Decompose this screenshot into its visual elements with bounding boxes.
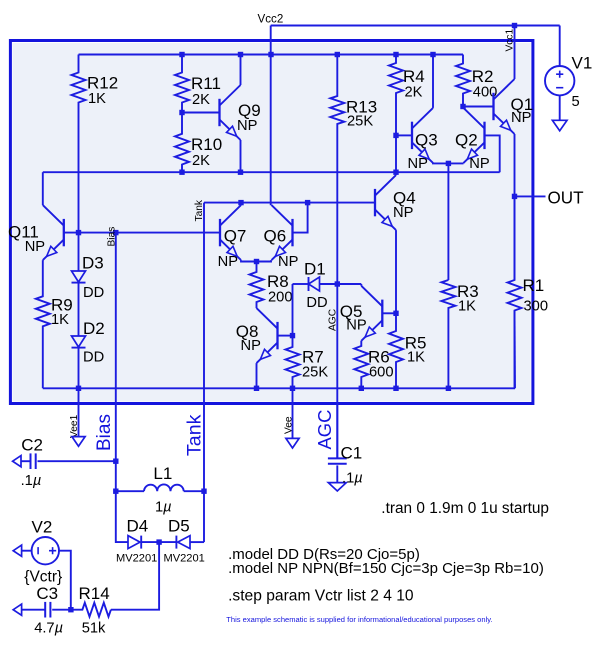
svg-text:NP: NP xyxy=(393,205,414,221)
resistor R11 xyxy=(175,55,221,113)
directive .model DD xyxy=(228,546,420,563)
junction on base rail xyxy=(238,170,243,175)
Q8 model NP xyxy=(241,338,262,354)
junction on Vee rail xyxy=(359,386,364,391)
capacitor C2 xyxy=(21,436,116,470)
svg-text:.1µ: .1µ xyxy=(21,473,42,489)
wire R1 bottom corner xyxy=(514,311,517,388)
R8 value 200 xyxy=(268,290,293,306)
svg-text:C1: C1 xyxy=(341,444,363,463)
resistor R13 xyxy=(330,55,377,285)
D3 model DD xyxy=(83,285,104,301)
resistor R3 xyxy=(441,280,478,388)
svg-text:NP: NP xyxy=(237,118,258,134)
R5 value 1K xyxy=(407,350,425,366)
wire Q7 collector stub xyxy=(240,203,242,206)
wire emitter node to R3 xyxy=(447,163,449,280)
wire Bias to D4 anode xyxy=(116,491,128,542)
junction R4 / Q3 base xyxy=(393,133,398,138)
svg-text:.model NP NPN(Bf=150 Cjc=3p Cj: .model NP NPN(Bf=150 Cjc=3p Cje=3p Rb=10… xyxy=(228,560,544,577)
wire Vee1 stem xyxy=(78,388,80,436)
svg-text:NP: NP xyxy=(469,156,490,172)
junction L1 right xyxy=(201,489,206,494)
Q7 model NP xyxy=(218,254,239,270)
svg-text:2K: 2K xyxy=(192,92,210,108)
svg-text:D1: D1 xyxy=(304,260,326,279)
svg-text:C2: C2 xyxy=(21,436,43,455)
wire Q4 collector stub xyxy=(395,172,397,175)
wire varactor node to R14 xyxy=(111,542,159,610)
svg-text:.step param Vctr list 2 4 10: .step param Vctr list 2 4 10 xyxy=(228,588,414,605)
ground at C2 xyxy=(13,456,21,467)
wire Q5 collector stub xyxy=(360,284,362,286)
Q3 model NP xyxy=(408,156,429,172)
wire Vcc2 horizontal xyxy=(271,25,560,27)
junction Q4 emitter / Q5 base / R5 xyxy=(393,311,398,316)
diode D2 xyxy=(72,283,105,348)
wire base rail xyxy=(43,171,500,173)
junction R2 / Q2 collector / Q1 base xyxy=(460,104,465,109)
junction C2 / Bias column xyxy=(113,459,118,464)
junction on Vcc rail xyxy=(430,52,435,57)
svg-text:200: 200 xyxy=(268,290,293,306)
svg-text:D2: D2 xyxy=(83,319,105,338)
transistor Q1 xyxy=(494,79,534,134)
node OUT xyxy=(548,189,585,208)
junction OUT xyxy=(512,194,517,199)
wire Vee rail xyxy=(43,387,515,389)
R2 value 400 xyxy=(473,85,498,101)
junction on Vcc rail xyxy=(393,52,398,57)
wire Q6 base xyxy=(293,203,308,233)
net label Vee1 (small) xyxy=(69,414,80,438)
R14 value 51k xyxy=(82,621,106,637)
svg-text:2K: 2K xyxy=(192,153,210,169)
R11 value 2K xyxy=(192,92,210,108)
svg-text:C3: C3 xyxy=(36,584,58,603)
wire Tank column xyxy=(203,203,205,542)
junction C3 / V2 / R14 xyxy=(68,607,73,612)
transistor Q8 xyxy=(236,308,278,363)
svg-text:NP: NP xyxy=(218,254,239,270)
junction on base rail xyxy=(393,170,398,175)
svg-text:Q3: Q3 xyxy=(415,131,438,150)
svg-text:.1µ: .1µ xyxy=(342,471,363,487)
junction on Vcc rail xyxy=(238,52,243,57)
svg-text:L1: L1 xyxy=(153,464,172,483)
svg-text:600: 600 xyxy=(369,365,394,381)
svg-text:R12: R12 xyxy=(87,74,118,93)
svg-text:R1: R1 xyxy=(523,276,545,295)
box (IC boundary) xyxy=(10,41,533,404)
resistor R1 xyxy=(508,196,545,388)
junction on Vee rail xyxy=(446,386,451,391)
C2 value .1µ xyxy=(21,473,42,489)
D5 value MV2201 xyxy=(164,553,205,565)
svg-text:25K: 25K xyxy=(302,365,328,381)
wire Q9 base xyxy=(182,112,220,114)
diode D4 xyxy=(127,517,160,549)
junction D4/D5 cathodes xyxy=(156,539,161,544)
Q11 model NP xyxy=(25,239,46,255)
wire Q11 collector xyxy=(42,172,44,205)
wire tank net to Q4 base xyxy=(204,202,375,204)
R6 value 600 xyxy=(369,365,394,381)
D2 model DD xyxy=(83,350,104,366)
directive .model NP xyxy=(228,560,544,577)
D1 model DD xyxy=(306,295,327,311)
junction on Vcc rail xyxy=(268,52,273,57)
resistor R4 xyxy=(389,55,425,136)
svg-text:4.7µ: 4.7µ xyxy=(34,621,63,637)
wire Q9 collector xyxy=(240,55,242,86)
resistor R12 xyxy=(72,55,119,233)
svg-text:Q7: Q7 xyxy=(224,227,247,246)
junction on Vee rail xyxy=(393,386,398,391)
svg-text:MV2201: MV2201 xyxy=(116,553,157,565)
transistor Q2 xyxy=(455,108,485,163)
svg-text:R11: R11 xyxy=(191,74,221,93)
junction on Vee rail xyxy=(76,386,81,391)
port label AGC (blue) xyxy=(314,410,335,450)
wire Q8 base xyxy=(278,335,293,337)
wire Q6 emitter xyxy=(257,260,272,261)
R3 value 1K xyxy=(458,299,476,315)
wire Bias column down to L1 xyxy=(115,233,117,492)
ground at V1 xyxy=(552,120,567,131)
Q4 model NP xyxy=(393,205,414,221)
svg-text:D4: D4 xyxy=(127,517,149,536)
svg-text:DD: DD xyxy=(306,295,327,311)
junction on Vee rail xyxy=(254,386,259,391)
svg-text:Vcc2: Vcc2 xyxy=(258,13,284,26)
svg-text:1K: 1K xyxy=(51,312,69,328)
diode D3 xyxy=(72,233,104,283)
transistor Q4 xyxy=(375,175,416,230)
svg-text:1K: 1K xyxy=(458,299,476,315)
svg-text:DD: DD xyxy=(83,350,104,366)
ground at C3 xyxy=(13,604,21,615)
resistor R10 xyxy=(175,113,222,173)
wire Q1 base xyxy=(463,106,494,108)
junction Q6 base / tank xyxy=(305,200,310,205)
junction L1 left xyxy=(113,489,118,494)
svg-text:Q2: Q2 xyxy=(455,131,478,150)
directive .tran xyxy=(381,500,549,517)
C3 value 4.7µ xyxy=(34,621,63,637)
svg-text:Q6: Q6 xyxy=(264,227,287,246)
svg-text:R14: R14 xyxy=(79,584,110,603)
svg-text:25K: 25K xyxy=(347,114,373,130)
net label Vee (small) xyxy=(283,416,294,434)
svg-text:OUT: OUT xyxy=(548,189,585,208)
transistor Q9 xyxy=(220,85,261,140)
wire Q3 base xyxy=(396,134,412,136)
svg-text:V1: V1 xyxy=(572,54,593,73)
svg-text:This example schematic is supp: This example schematic is supplied for i… xyxy=(226,615,492,624)
junction on Vee rail xyxy=(290,386,295,391)
R9 value 1K xyxy=(51,312,69,328)
svg-text:R8: R8 xyxy=(267,272,289,291)
R7 value 25K xyxy=(302,365,328,381)
svg-text:NP: NP xyxy=(25,239,46,255)
D4 value MV2201 xyxy=(116,553,157,565)
wire Vee stem xyxy=(292,388,294,438)
Q2 model NP xyxy=(469,156,490,172)
ground flag Vee1 xyxy=(72,437,85,447)
wire D2 cathode to Vee rail xyxy=(78,348,80,389)
svg-text:.tran 0 1.9m 0 1u startup: .tran 0 1.9m 0 1u startup xyxy=(381,500,549,517)
resistor R7 xyxy=(286,336,324,389)
net label Bias (small) xyxy=(106,227,117,247)
wire Q4 emitter to Q5 base xyxy=(395,230,397,313)
wire Q3/Q2 emitter join xyxy=(433,162,464,165)
svg-text:DD: DD xyxy=(83,285,104,301)
svg-text:1µ: 1µ xyxy=(155,500,172,516)
ground at V2 xyxy=(13,545,21,556)
svg-text:51k: 51k xyxy=(82,621,106,637)
wire OUT stub xyxy=(515,195,546,197)
junction on Vcc rail xyxy=(179,52,184,57)
wire Q3 collector xyxy=(432,55,434,108)
node Vcc2 xyxy=(258,13,284,26)
V2 value {Vctr} xyxy=(24,569,62,586)
resistor R14 xyxy=(71,584,111,617)
resistor R6 xyxy=(354,341,389,389)
wire AGC column down to C1 xyxy=(336,284,338,458)
wire V1 bottom lead xyxy=(559,95,561,120)
inductor L1 xyxy=(116,464,204,491)
junction emitters / R3 xyxy=(446,161,451,166)
wire V1 top lead xyxy=(559,26,561,67)
port label Bias (blue) xyxy=(94,414,115,451)
wire Q7 emitter xyxy=(241,260,257,261)
wire Q5 base xyxy=(382,312,396,314)
L1 value 1µ xyxy=(155,500,172,516)
capacitor C1 xyxy=(328,405,362,483)
junction on Vcc rail xyxy=(335,52,340,57)
wire Q9 emitter xyxy=(240,140,242,172)
transistor Q6 xyxy=(264,205,293,260)
wire Vcc2 drop to Q6 collector xyxy=(270,26,272,206)
svg-text:2K: 2K xyxy=(405,85,423,101)
svg-text:D5: D5 xyxy=(168,517,190,536)
node Vcc1 xyxy=(504,29,515,52)
Q6 model NP xyxy=(278,254,299,270)
resistor R5 xyxy=(389,313,426,388)
Q9 model NP xyxy=(237,118,258,134)
wire Q1 emitter / OUT column xyxy=(514,134,516,280)
svg-text:V2: V2 xyxy=(32,518,53,537)
voltage source V2 xyxy=(22,518,71,610)
svg-text:1K: 1K xyxy=(407,350,425,366)
Q5 model NP xyxy=(346,318,367,334)
wire R4 node to base rail xyxy=(395,135,397,172)
port label Tank (blue) xyxy=(184,414,206,456)
junction Bias/R12/D3 xyxy=(76,230,81,235)
junction Q7/Q6 emitters / R8 xyxy=(254,259,259,264)
wire Vcc rail inside box xyxy=(79,54,464,56)
svg-text:R10: R10 xyxy=(191,135,222,154)
svg-text:R4: R4 xyxy=(403,67,425,86)
diode D5 xyxy=(159,517,204,549)
disclaimer text xyxy=(226,615,492,624)
junction Q8 base / R7 / D1 xyxy=(290,333,295,338)
svg-text:AGC: AGC xyxy=(314,410,335,450)
Q1 model NP xyxy=(511,110,532,126)
capacitor C3 xyxy=(22,584,71,618)
svg-text:NP: NP xyxy=(511,110,532,126)
wire Q2 collector stub xyxy=(462,107,465,108)
junction R11/R10/Q9 base xyxy=(179,110,184,115)
junction Vcc1 tap xyxy=(512,23,517,28)
svg-text:R2: R2 xyxy=(472,67,494,86)
svg-text:MV2201: MV2201 xyxy=(164,553,205,565)
diode D1 xyxy=(293,260,338,292)
net label Tank (small) xyxy=(194,199,205,221)
C1 value .1µ xyxy=(342,471,363,487)
svg-text:Bias: Bias xyxy=(94,414,115,451)
transistor Q7 xyxy=(220,205,246,260)
junction Q7 collector / tank xyxy=(238,200,243,205)
transistor Q11 xyxy=(8,205,64,260)
svg-text:NP: NP xyxy=(278,254,299,270)
wire Q2 base to base rail xyxy=(485,135,500,172)
wire D1 to Q8 base xyxy=(292,284,294,336)
junction on base rail xyxy=(179,170,184,175)
junction Bias drop xyxy=(113,230,118,235)
ground at C1 xyxy=(328,483,346,491)
net label AGC (small) xyxy=(327,309,338,331)
wire D1 to Q5 collector xyxy=(337,283,361,285)
wire Q8 emitter to Vee rail xyxy=(256,363,258,388)
R4 value 2K xyxy=(405,85,423,101)
junction D1 / AGC column xyxy=(335,281,340,286)
svg-text:Tank: Tank xyxy=(184,414,206,456)
resistor R9 xyxy=(36,260,73,388)
directive .step xyxy=(228,588,414,605)
svg-text:{Vctr}: {Vctr} xyxy=(24,569,62,586)
svg-text:5: 5 xyxy=(572,94,580,110)
voltage source V1 xyxy=(545,54,592,96)
R10 value 2K xyxy=(192,153,210,169)
wire Bias rail (Q11 base to Q7 base) xyxy=(64,232,220,234)
resistor R8 xyxy=(250,262,289,309)
V1 value 5 xyxy=(572,94,580,110)
R12 value 1K xyxy=(88,91,106,107)
wire Q2 emitter stub xyxy=(463,162,465,165)
svg-text:NP: NP xyxy=(241,338,262,354)
svg-text:300: 300 xyxy=(524,299,549,315)
R13 value 25K xyxy=(347,114,373,130)
resistor R2 xyxy=(456,55,493,107)
svg-text:1K: 1K xyxy=(88,91,106,107)
transistor Q5 xyxy=(340,286,383,341)
R1 value 300 xyxy=(524,299,549,315)
svg-text:NP: NP xyxy=(408,156,429,172)
transistor Q3 xyxy=(412,108,438,163)
svg-text:D3: D3 xyxy=(82,254,104,273)
wire Vcc1 to Q1 collector xyxy=(514,26,516,80)
svg-text:NP: NP xyxy=(346,318,367,334)
ground flag Vee xyxy=(286,438,299,448)
